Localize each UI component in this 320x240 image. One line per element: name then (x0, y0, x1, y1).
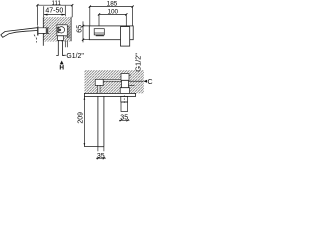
dimension 35 (tube) (96, 157, 106, 159)
valve seat dark block (46, 28, 49, 33)
wall section hatch (side view) (43, 17, 71, 41)
svg-text:111: 111 (51, 0, 61, 7)
spout body box (bottom view) (95, 79, 103, 85)
dimension 185 (90, 7, 133, 26)
dimension 111 (37, 5, 72, 25)
dimension 100 (99, 14, 126, 28)
aerator dark bar (96, 35, 104, 36)
wall plate (front view) (89, 26, 133, 40)
C arrow (143, 80, 147, 83)
handle body box3 (120, 88, 129, 94)
escutcheon plate (37, 26, 39, 35)
connecting tube lines (103, 79, 121, 81)
cutout handle body boxes (121, 74, 129, 81)
handle body box2 (122, 80, 129, 87)
wall cutout sub box (57, 36, 63, 41)
handle (front view) (121, 27, 130, 46)
supply pipe (side view) (58, 40, 62, 55)
wall section hatch (bottom view) (85, 70, 144, 93)
body corridor through wall (38, 28, 49, 34)
water stream dashes (34, 35, 36, 43)
G1/2 label (side view) (63, 54, 66, 56)
wall back face (70, 17, 72, 42)
H arrow (60, 61, 64, 65)
wall front face (42, 17, 44, 46)
rear stub (65, 40, 67, 47)
svg-text:35: 35 (97, 153, 105, 160)
handle block (bottom view) (121, 96, 128, 102)
cutout connecting tube (103, 79, 121, 81)
cartridge housing (57, 25, 67, 36)
wall cutout housing (57, 25, 67, 36)
dimension 65 (82, 21, 84, 42)
mounting plate (bottom view, edge on) (84, 93, 135, 96)
svg-text:47-50: 47-50 (45, 7, 63, 14)
handle body box1 (bottom view) (121, 74, 129, 81)
cutout spout stub channel (98, 85, 100, 93)
section line C (129, 80, 143, 82)
tube 35 extension lines (98, 147, 104, 152)
dimension 35 (handle) (119, 119, 129, 121)
svg-text:G1/2": G1/2" (66, 53, 84, 60)
dimension 209 (84, 96, 98, 146)
spout outlet box (94, 29, 104, 35)
cutout spout body box (95, 79, 103, 85)
box1 right stub (129, 74, 131, 76)
svg-text:H: H (59, 64, 64, 71)
svg-text:65: 65 (76, 25, 83, 33)
handle center line (123, 95, 125, 103)
tube end crossbar (98, 146, 104, 148)
svg-text:185: 185 (107, 0, 118, 7)
spout (side view) (1, 28, 38, 38)
svg-text:35: 35 (120, 115, 128, 122)
svg-text:G1/2": G1/2" (134, 53, 143, 72)
cartridge circle (58, 27, 64, 33)
dimension 47-50 (44, 6, 66, 17)
sub connection box (57, 36, 63, 41)
svg-text:C: C (148, 79, 153, 86)
pipe break feet (56, 55, 64, 57)
spout stubs below box (98, 85, 100, 93)
svg-text:209: 209 (77, 112, 84, 124)
svg-text:100: 100 (107, 9, 118, 16)
rear flange line (129, 85, 135, 87)
wall cutout body corridor (43, 28, 49, 34)
spout tube (bottom view) (98, 96, 104, 146)
